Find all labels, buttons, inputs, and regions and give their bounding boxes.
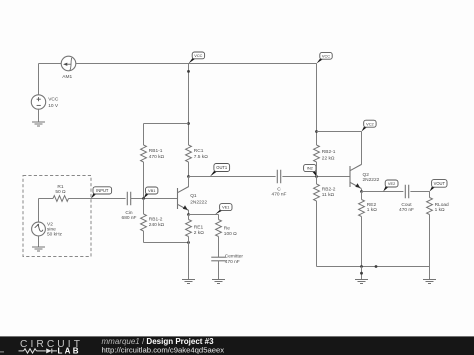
svg-text:VE1: VE1: [222, 205, 229, 210]
wire branch to Q2 collector: [317, 131, 362, 133]
svg-text:Q1: Q1: [190, 193, 197, 199]
svg-text:100 Ω: 100 Ω: [224, 231, 237, 237]
svg-text:VC2: VC2: [366, 121, 374, 126]
node flag VOUT: [430, 180, 448, 192]
svg-text:VE2: VE2: [388, 181, 395, 186]
svg-text:RB1-2: RB1-2: [149, 217, 163, 223]
svg-text:2N2222: 2N2222: [363, 177, 380, 183]
node flag VE2: [383, 180, 398, 192]
junction VB1 node: [142, 197, 145, 200]
svg-text:RLoad: RLoad: [435, 202, 449, 208]
svg-text:INPUT: INPUT: [96, 188, 109, 193]
wire RB1-2 down: [143, 231, 145, 243]
wire to RLoad: [429, 192, 431, 198]
svg-text:RB2-1: RB2-1: [322, 149, 336, 155]
wire RE1 to ground: [188, 237, 190, 280]
junction VE1 node: [187, 213, 190, 216]
wire Cemitter to ground: [218, 261, 220, 279]
ground (V2): [32, 247, 45, 251]
svg-text:1 kΩ: 1 kΩ: [435, 207, 445, 213]
ammeter AM1: [61, 56, 76, 71]
svg-text:VOUT: VOUT: [434, 181, 446, 186]
transistor Q1 (NPN): [178, 187, 189, 211]
wire rail to ground: [361, 267, 363, 280]
svg-text:2N2222: 2N2222: [190, 200, 207, 206]
node flag IN2: [304, 164, 317, 176]
wire R1 to Cin (INPUT): [69, 198, 126, 200]
junction VE2 node: [360, 190, 363, 193]
wire V1 to ground: [38, 109, 40, 121]
svg-text:RB2-2: RB2-2: [322, 187, 336, 193]
junction rail1 / RB1-1 branch: [187, 122, 190, 125]
resistor Re: [216, 220, 222, 237]
source V2 (sine): [32, 222, 46, 236]
voltage source V1 VCC 10V: [31, 95, 45, 109]
wire down to Q2 collector: [361, 132, 363, 165]
junction IN2 node: [315, 175, 318, 178]
wire Cout to RLoad: [410, 191, 429, 193]
node flag OUT1: [210, 164, 230, 177]
wire RLoad to bottom rail: [429, 215, 431, 267]
svg-text:Cout: Cout: [401, 202, 412, 208]
ground (Cemitter): [212, 280, 225, 284]
wire V2 to R1: [39, 198, 54, 200]
svg-text:50 Ω: 50 Ω: [55, 189, 66, 195]
wire RB1-2 to RE1 node: [144, 242, 189, 244]
node flag VCC #2: [317, 52, 333, 63]
svg-text:VCC: VCC: [48, 97, 59, 103]
svg-text:7.5 kΩ: 7.5 kΩ: [194, 154, 208, 160]
resistor RE2: [359, 200, 365, 217]
footer bar: [0, 336, 474, 355]
svg-text:RC1: RC1: [194, 148, 204, 154]
junction RE1 bottom: [187, 241, 190, 244]
wire AM1 to VCC rails: [76, 63, 317, 65]
node flag VCC #1: [189, 52, 205, 64]
svg-text:AM1: AM1: [62, 74, 72, 80]
wire V2 to ground: [38, 236, 40, 247]
svg-text:LAB: LAB: [58, 347, 81, 355]
wire C to Q2 base: [282, 176, 350, 178]
wire to RE2: [361, 192, 363, 200]
wire RB2-1 to base node: [316, 162, 318, 184]
node flag INPUT: [91, 187, 112, 199]
node flag VC2: [362, 120, 377, 131]
svg-text:Re: Re: [224, 225, 230, 231]
wire Q1 emitter down: [188, 211, 190, 215]
wire RLoad to ground: [429, 267, 431, 280]
wire down to V1 source: [38, 64, 40, 95]
svg-text:1 kΩ: 1 kΩ: [367, 207, 377, 213]
svg-text:680 nF: 680 nF: [122, 215, 137, 221]
wire RB2-2 down to bottom rail: [316, 201, 318, 267]
resistor RB1-1: [141, 145, 147, 162]
svg-text:11 kΩ: 11 kΩ: [322, 192, 335, 198]
svg-text:Cemitter: Cemitter: [225, 254, 244, 260]
dashed source box: [23, 176, 91, 257]
wire VCC-source to AM1: [39, 63, 62, 65]
wire OUT1 to C: [189, 176, 276, 178]
junction ground stub: [360, 272, 363, 275]
resistor RLoad: [427, 198, 433, 215]
svg-text:470 nF: 470 nF: [272, 191, 287, 197]
junction on rail: [375, 265, 378, 268]
resistor R1: [53, 196, 69, 202]
wire RC1 to collector node: [188, 162, 190, 177]
junction rail2 / Q2 collector branch: [315, 130, 318, 133]
svg-text:OUT1: OUT1: [216, 165, 228, 170]
svg-text:Cin: Cin: [125, 210, 133, 216]
svg-text:IN2: IN2: [307, 166, 313, 171]
svg-text:470 nF: 470 nF: [399, 207, 414, 213]
svg-text:10 V: 10 V: [48, 103, 59, 109]
svg-text:http://circuitlab.com/c9ake4qd: http://circuitlab.com/c9ake4qd5aeex: [102, 346, 225, 355]
junction on VCC rail 1: [187, 70, 190, 73]
wire Q2 emitter down: [361, 189, 363, 192]
junction OUT1 node: [187, 175, 190, 178]
wire RB1-1 to base node: [143, 162, 145, 199]
svg-text:sine: sine: [47, 226, 56, 232]
wire base node to RB1-2: [143, 199, 145, 215]
transistor Q2 (NPN): [350, 165, 361, 189]
svg-text:50 kHz: 50 kHz: [47, 232, 63, 238]
svg-text:VB1: VB1: [148, 188, 155, 193]
wire Re to Cemitter: [218, 237, 220, 258]
capacitor C: [277, 170, 280, 184]
svg-text:VCC: VCC: [194, 53, 202, 58]
node flag VE1: [215, 204, 232, 215]
resistor RC1: [186, 145, 192, 162]
svg-text:VCC: VCC: [322, 53, 330, 58]
resistor RB2-2: [314, 184, 320, 201]
svg-text:470 nF: 470 nF: [225, 259, 240, 265]
wire down to RB1-1: [143, 124, 145, 146]
svg-text:RB1-1: RB1-1: [149, 148, 163, 154]
svg-text:470 kΩ: 470 kΩ: [149, 154, 165, 160]
resistor RE1: [186, 220, 192, 237]
wire VE2 node to Cout: [362, 191, 404, 193]
ground (RLoad): [423, 280, 436, 284]
wire VE1 node to Re: [189, 214, 219, 216]
wire to Re: [218, 215, 220, 220]
node flag VB1: [144, 187, 158, 199]
wire bottom rail: [317, 266, 430, 268]
wire to RE1: [188, 215, 190, 220]
CircuitLab logo: [0, 339, 83, 355]
ground (RE2): [355, 280, 368, 284]
wire VCC rail 2 down: [316, 64, 318, 146]
svg-text:240 kΩ: 240 kΩ: [149, 222, 165, 228]
wire branch to RB1-1: [144, 123, 189, 125]
resistor RB2-1: [314, 145, 320, 162]
wire RE2 to bottom rail: [361, 217, 363, 267]
svg-text:2 kΩ: 2 kΩ: [194, 230, 204, 236]
svg-text:22 kΩ: 22 kΩ: [322, 155, 335, 161]
wire down to V2: [38, 199, 40, 223]
ground (RE1): [182, 280, 195, 284]
wire VCC rail 1 down: [188, 64, 190, 146]
capacitor Cin: [127, 192, 130, 206]
ground (V1): [32, 122, 45, 126]
svg-text:RE1: RE1: [194, 224, 204, 230]
capacitor Cout: [405, 185, 408, 199]
svg-text:RE2: RE2: [367, 202, 377, 208]
wire Q1 collector up: [188, 177, 190, 187]
junction RE2 / rail: [360, 265, 363, 268]
capacitor Cemitter: [211, 257, 226, 261]
resistor RB1-2: [141, 214, 147, 231]
wire Cin to Q1 base: [131, 198, 178, 200]
